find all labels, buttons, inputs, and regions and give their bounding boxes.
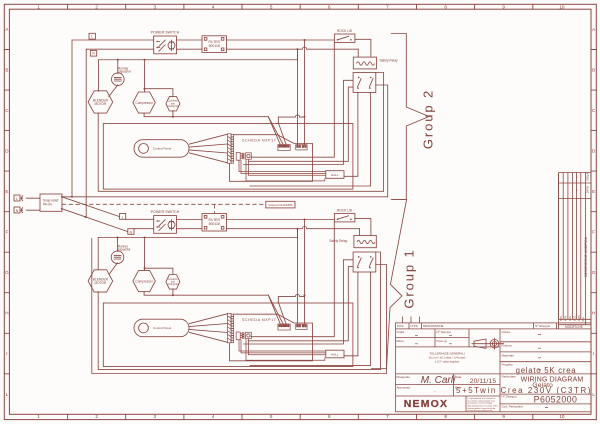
connector CN2 group1 bbox=[278, 324, 290, 330]
svg-text:DATA: DATA bbox=[585, 186, 589, 193]
wire L top rail bbox=[72, 39, 154, 41]
svg-text:POS.: POS. bbox=[560, 315, 563, 321]
svg-text:9: 9 bbox=[502, 4, 505, 9]
frame column ticks top bbox=[68, 4, 533, 9]
svg-text:G: G bbox=[592, 270, 596, 275]
rock lid switch S2 bbox=[334, 34, 355, 43]
svg-text:H: H bbox=[592, 311, 595, 316]
right col row materiale bbox=[500, 361, 591, 363]
svg-text:L: L bbox=[122, 215, 124, 219]
wire filter N to relay coil g1 with hop bbox=[227, 226, 360, 228]
wire CN diagonal 3 g1 bbox=[278, 302, 286, 324]
column line symbol cell bbox=[468, 329, 470, 347]
svg-text:Progetto: Progetto bbox=[502, 363, 514, 367]
wire capacitor drop bbox=[117, 60, 119, 74]
node junction L at x304.5 bbox=[304, 39, 306, 41]
wires board to hall sensor bbox=[239, 159, 326, 181]
wire motor bottom return g1 bbox=[98, 252, 380, 370]
svg-text:± 0.2° valori angolari: ± 0.2° valori angolari bbox=[435, 360, 460, 364]
node capacitor tap bbox=[117, 59, 119, 61]
board edge connector CN1 bbox=[228, 134, 234, 164]
wire power switch to filter L g1 bbox=[177, 219, 203, 221]
filter F1 group1 bbox=[202, 214, 227, 232]
wire motor bottom return bbox=[98, 73, 383, 192]
svg-text:Cod. Particolare: Cod. Particolare bbox=[502, 404, 524, 408]
board NXP17 outline bbox=[230, 135, 313, 182]
svg-text:Nº Disegno: Nº Disegno bbox=[502, 395, 517, 399]
safety relay K1 contacts bbox=[353, 73, 376, 93]
terminal square L bbox=[89, 33, 95, 39]
wire left rail 1 (L) bbox=[71, 40, 73, 197]
svg-text:4: 4 bbox=[212, 4, 215, 9]
svg-text:SCHEDA NXP17: SCHEDA NXP17 bbox=[242, 139, 276, 143]
blender motor group1 bbox=[88, 270, 113, 292]
frame grid letters left bbox=[5, 27, 9, 397]
wire CN diagonal 3 bbox=[278, 123, 286, 145]
svg-text:SIGLA: SIGLA bbox=[585, 173, 589, 181]
wires board to hall group1 bbox=[239, 339, 326, 361]
svg-text:E: E bbox=[592, 189, 595, 194]
svg-text:HALL: HALL bbox=[331, 173, 339, 177]
wire contact pin 2 under board g1 bbox=[250, 272, 371, 365]
right col row finitura bbox=[500, 351, 591, 353]
column line data sub bbox=[453, 374, 455, 396]
wire coil left feed bbox=[357, 49, 359, 57]
svg-text:I: I bbox=[593, 351, 594, 356]
svg-text:MOTOR: MOTOR bbox=[94, 102, 107, 106]
svg-text:B: B bbox=[5, 68, 8, 73]
wire fan bottom drop g1 bbox=[172, 289, 174, 295]
svg-text:±0.1 tol / ±0.1 sbav. / 1/4 (m: ±0.1 tol / ±0.1 sbav. / 1/4 (max) bbox=[429, 356, 466, 360]
power switch S1 group1 bbox=[154, 216, 177, 234]
svg-text:L: L bbox=[6, 392, 9, 397]
right col row progetto bbox=[500, 373, 591, 375]
svg-text:MOTOR: MOTOR bbox=[94, 281, 107, 285]
connector BT1 group1 bbox=[296, 324, 307, 329]
wire rock lid to coil bbox=[355, 39, 371, 57]
filter F1 bbox=[202, 36, 227, 53]
column line nps bbox=[421, 323, 423, 329]
control panel group1 bbox=[134, 319, 189, 337]
row line approvato bottom bbox=[396, 395, 501, 397]
column line n disegno end bbox=[556, 323, 558, 329]
projection method symbol bbox=[472, 338, 505, 350]
node compressor line end bbox=[304, 116, 306, 118]
svg-text:E: E bbox=[5, 189, 8, 194]
svg-text:Nº Disegno: Nº Disegno bbox=[535, 324, 550, 328]
hall sensor group1 bbox=[326, 350, 344, 358]
svg-text:10: 10 bbox=[559, 414, 565, 419]
svg-text:2: 2 bbox=[95, 4, 98, 9]
frame grid letters right bbox=[592, 27, 596, 397]
wire BT feed A g1 bbox=[297, 229, 299, 325]
wire contact pin 1 to hall right bbox=[344, 93, 358, 177]
svg-text:6: 6 bbox=[328, 414, 331, 419]
svg-text:10: 10 bbox=[559, 4, 565, 9]
safety relay contacts group1 bbox=[353, 252, 376, 272]
wire capacitor to motor diagonal bbox=[109, 85, 118, 97]
board edge connector group1 bbox=[228, 313, 234, 343]
svg-text:ROCK LID: ROCK LID bbox=[337, 29, 353, 33]
svg-text:Data: Data bbox=[455, 386, 462, 390]
row line disegnato bottom bbox=[396, 384, 501, 386]
compressor M2 bbox=[133, 92, 155, 113]
svg-text:N.: N. bbox=[576, 176, 578, 179]
frame column ticks bottom bbox=[68, 414, 533, 419]
svg-text:Safety Relay: Safety Relay bbox=[329, 239, 347, 243]
svg-text:Peso gr.: Peso gr. bbox=[437, 339, 448, 343]
hall sensor bbox=[326, 171, 344, 179]
svg-text:M. Carli: M. Carli bbox=[421, 375, 456, 386]
safety relay coil group1 bbox=[354, 235, 376, 247]
wire N top rail bbox=[86, 48, 154, 50]
wire compressor drop g1 bbox=[144, 238, 146, 271]
right col row n disegno bbox=[500, 403, 591, 405]
wire N into power switch bbox=[134, 228, 154, 230]
svg-text:3: 3 bbox=[154, 4, 157, 9]
wire contact pin 1 to hall right g1 bbox=[344, 272, 358, 356]
svg-text:B: B bbox=[592, 68, 595, 73]
svg-text:P6052000: P6052000 bbox=[534, 394, 578, 404]
wire left rail 2 (N) bbox=[85, 49, 87, 217]
svg-text:6: 6 bbox=[328, 4, 331, 9]
svg-text:Control Panel: Control Panel bbox=[153, 147, 172, 151]
svg-text:N.: N. bbox=[576, 189, 578, 192]
wire filter to rock lid L g1 bbox=[227, 219, 335, 221]
svg-text:I: I bbox=[6, 351, 7, 356]
node capacitor tap g1 bbox=[117, 237, 119, 239]
column line descrizione end bbox=[533, 323, 535, 329]
svg-text:DESCRIZIONE MODIFICA: DESCRIZIONE MODIFICA bbox=[584, 236, 588, 276]
svg-text:500118: 500118 bbox=[209, 44, 220, 48]
wire coil left feed g1 bbox=[359, 229, 361, 236]
revision header row line bbox=[396, 328, 592, 330]
svg-text:Safety Relay: Safety Relay bbox=[380, 58, 398, 62]
wire motor loop top rail bbox=[99, 59, 298, 61]
wire filter N to relay coil with hop bbox=[227, 47, 359, 49]
svg-text:3: 3 bbox=[154, 414, 157, 419]
right col row colore bbox=[500, 341, 591, 343]
svg-text:cooling fan: cooling fan bbox=[167, 105, 179, 108]
frame row ticks left bbox=[4, 50, 9, 374]
svg-text:L: L bbox=[16, 197, 18, 201]
row line ritiro bottom bbox=[396, 346, 501, 348]
wire CN diagonal 2 g1 bbox=[268, 295, 283, 324]
frame grid numbers top bbox=[37, 4, 565, 9]
ground chassis dashed line bbox=[62, 204, 266, 213]
copyright small text bbox=[468, 398, 499, 412]
wire filter to rock lid L bbox=[227, 39, 335, 41]
svg-text:Ritiro: Ritiro bbox=[397, 339, 404, 343]
control panel bbox=[134, 140, 189, 158]
svg-text:capacitor: capacitor bbox=[118, 248, 132, 252]
node junction N g1 bbox=[297, 228, 299, 230]
wire contact pin 2 under board bbox=[250, 93, 371, 187]
wire compressor bottom g1 bbox=[144, 292, 304, 303]
column line copyright cell bbox=[465, 396, 467, 412]
node fan bottom junction g1 bbox=[172, 294, 174, 296]
svg-text:Ground CHASSIS: Ground CHASSIS bbox=[268, 203, 292, 207]
wire outer loop return g1 bbox=[92, 239, 387, 374]
svg-text:cooling fan: cooling fan bbox=[167, 283, 179, 286]
wire capacitor to motor diagonal g1 bbox=[109, 263, 118, 275]
frame row ticks right bbox=[591, 50, 596, 374]
node compressor tap bbox=[144, 59, 146, 61]
svg-text:TOLLERANZE GENERALI: TOLLERANZE GENERALI bbox=[429, 352, 465, 356]
wire CN diagonal 1 g1 bbox=[268, 295, 280, 324]
wire power switch to filter L bbox=[177, 39, 203, 41]
svg-text:POWER SWITCH: POWER SWITCH bbox=[151, 30, 180, 34]
title block outline bbox=[396, 323, 592, 412]
safety relay K1 coil bbox=[353, 57, 376, 69]
wire BT feed B bbox=[304, 40, 306, 145]
wire rock lid to coil g1 bbox=[355, 219, 371, 236]
svg-text:Group 1: Group 1 bbox=[402, 248, 417, 308]
runner capacitor group1 bbox=[111, 251, 124, 264]
column line right col bbox=[499, 329, 501, 412]
svg-text:7: 7 bbox=[386, 414, 389, 419]
svg-text:Approvato: Approvato bbox=[397, 386, 411, 390]
svg-text:Compressor: Compressor bbox=[135, 101, 153, 105]
svg-text:Particolare: Particolare bbox=[502, 374, 517, 378]
svg-text:Control Panel: Control Panel bbox=[153, 326, 172, 330]
wire fan branch g1 bbox=[145, 268, 173, 274]
wire motor top drop g1 bbox=[97, 238, 99, 270]
rock lid switch group1 bbox=[334, 213, 355, 222]
relay RL1 group1 bbox=[236, 332, 244, 340]
frame grid numbers bottom bbox=[37, 414, 565, 419]
svg-text:perseguita a norma di legge: perseguita a norma di legge bbox=[468, 402, 494, 405]
wire rock lid tap to board bbox=[251, 43, 334, 158]
enclosure rectangle control panel bbox=[103, 124, 353, 190]
svg-text:DATA: DATA bbox=[578, 315, 581, 321]
wire compressor bottom bbox=[144, 113, 304, 123]
connector CN2 on board bbox=[278, 145, 290, 151]
terminal square L group1 bbox=[120, 214, 126, 220]
svg-text:MODIFICHE: MODIFICHE bbox=[565, 325, 583, 329]
wire outer loop L return bbox=[62, 85, 388, 197]
svg-text:N.PS: N.PS bbox=[564, 315, 567, 321]
row line scala/ritiro bbox=[396, 337, 470, 339]
enclosure rectangle control panel g1 bbox=[103, 303, 353, 367]
svg-text:MOD: MOD bbox=[573, 315, 576, 321]
wire contact stub left 2 g1 bbox=[249, 267, 353, 341]
svg-text:8: 8 bbox=[444, 4, 447, 9]
wire fan branch bbox=[145, 89, 173, 97]
svg-text:Materiale: Materiale bbox=[502, 353, 515, 357]
node compressor line end g1 bbox=[304, 294, 306, 296]
node rail1 to outer loop bbox=[71, 196, 73, 198]
snap relief PA-04 bbox=[40, 194, 62, 211]
wire BT feed A bbox=[297, 49, 299, 145]
svg-text:9: 9 bbox=[502, 414, 505, 419]
wire fan bottom drop bbox=[172, 111, 174, 117]
revision row stubs above block bbox=[403, 317, 420, 323]
row line tolleranze bottom bbox=[396, 373, 501, 375]
svg-text:F: F bbox=[592, 230, 595, 235]
svg-text:8: 8 bbox=[444, 414, 447, 419]
column line pos bbox=[408, 323, 410, 329]
wire contact stub left 1 g1 bbox=[244, 260, 354, 344]
svg-text:2: 2 bbox=[95, 414, 98, 419]
svg-text:DES.: DES. bbox=[569, 315, 572, 321]
group 1 brace bbox=[371, 200, 407, 369]
wire capacitor drop g1 bbox=[117, 238, 119, 252]
wire drop to motor rail g1 bbox=[297, 229, 299, 238]
svg-text:500118: 500118 bbox=[209, 222, 220, 226]
svg-text:gelato 5K crea: gelato 5K crea bbox=[516, 366, 577, 375]
svg-text:DESCRIZIONE: DESCRIZIONE bbox=[423, 324, 444, 328]
wire motor top drop bbox=[98, 60, 100, 92]
terminal square N group1 bbox=[128, 229, 134, 235]
wire contact stub left 1 bbox=[244, 80, 354, 164]
svg-text:F: F bbox=[5, 230, 8, 235]
svg-text:5: 5 bbox=[270, 414, 273, 419]
wire CN diagonal 1 bbox=[268, 117, 280, 145]
terminal plug N bbox=[14, 207, 20, 213]
wire diagonal to L input group1 bbox=[62, 197, 120, 217]
right col row particolare bbox=[500, 393, 591, 395]
flex cable trapezoid group1 bbox=[189, 314, 228, 343]
svg-text:Group 2: Group 2 bbox=[421, 89, 436, 149]
svg-text:4: 4 bbox=[212, 414, 215, 419]
node compressor tap g1 bbox=[144, 237, 146, 239]
svg-text:1: 1 bbox=[37, 414, 40, 419]
svg-text:Scala: Scala bbox=[397, 330, 405, 334]
condenser cooling fan group1 bbox=[166, 275, 180, 290]
svg-text:Compressor: Compressor bbox=[135, 279, 153, 283]
terminal square N bbox=[90, 51, 96, 57]
svg-text:L: L bbox=[91, 35, 93, 39]
svg-text:1: 1 bbox=[37, 4, 40, 9]
terminal plug L bbox=[14, 195, 20, 201]
wire rock lid tap to board g1 bbox=[251, 222, 334, 337]
ground chassis label box bbox=[266, 201, 295, 208]
wire CN diagonal 2 bbox=[268, 117, 283, 145]
wire power switch to filter N g1 bbox=[177, 228, 203, 230]
svg-text:capacitor: capacitor bbox=[118, 70, 132, 74]
relay RL1 on board bbox=[236, 153, 244, 161]
svg-text:SCHEDA NXP17: SCHEDA NXP17 bbox=[242, 318, 276, 322]
svg-text:PA-04: PA-04 bbox=[43, 202, 52, 206]
svg-text:POS.: POS. bbox=[397, 324, 404, 328]
svg-text:POWER SWITCH: POWER SWITCH bbox=[151, 210, 180, 214]
svg-text:7: 7 bbox=[386, 4, 389, 9]
node fan branch bbox=[144, 88, 146, 90]
wire compressor drop bbox=[144, 60, 146, 92]
svg-text:20/11/15: 20/11/15 bbox=[470, 378, 497, 385]
condenser cooling fan M3 bbox=[166, 96, 180, 111]
wire motor loop top rail g1 bbox=[98, 237, 297, 239]
svg-text:prosecuted according to law: prosecuted according to law bbox=[468, 409, 493, 412]
node fan branch g1 bbox=[144, 267, 146, 269]
compressor group1 bbox=[133, 271, 155, 292]
connector BT1 on board bbox=[296, 145, 307, 150]
runner capacitor C1 bbox=[112, 73, 125, 86]
svg-text:L: L bbox=[592, 392, 595, 397]
node junction N at x297.5 bbox=[297, 48, 299, 50]
svg-text:Colore: Colore bbox=[502, 330, 511, 334]
svg-text:Disegnato: Disegnato bbox=[397, 375, 411, 379]
svg-text:HALL: HALL bbox=[331, 353, 339, 357]
svg-text:G: G bbox=[5, 270, 9, 275]
wire contact stub left 2 bbox=[249, 87, 353, 161]
group 2 brace bbox=[391, 34, 429, 200]
blender motor M1 bbox=[88, 91, 113, 113]
node fan bottom junction bbox=[172, 116, 174, 118]
power switch S1 bbox=[154, 36, 177, 54]
board NXP17 outline group1 bbox=[230, 314, 313, 361]
column line scala/stampo bbox=[434, 329, 436, 347]
wire power switch to filter N bbox=[177, 48, 203, 50]
svg-text:ROCK LID: ROCK LID bbox=[337, 208, 353, 212]
svg-text:NEMOX: NEMOX bbox=[404, 398, 449, 410]
revision strip table bbox=[559, 173, 592, 329]
wire BT feed B g1 bbox=[304, 220, 306, 325]
svg-text:5: 5 bbox=[270, 4, 273, 9]
wire diagonal to N input group1 bbox=[62, 209, 128, 232]
wire drop to motor rail bbox=[297, 49, 299, 60]
svg-text:H: H bbox=[5, 311, 8, 316]
node junction L g1 bbox=[304, 219, 306, 221]
cell dash marks bbox=[415, 335, 548, 408]
svg-text:Data: Data bbox=[455, 375, 462, 379]
wire L into power switch bbox=[126, 218, 154, 220]
svg-text:NºPS: NºPS bbox=[411, 324, 418, 328]
svg-text:Nº Stampo: Nº Stampo bbox=[437, 330, 452, 334]
relay RL2 group1 bbox=[246, 332, 252, 338]
node rail2 on diagonal bbox=[85, 216, 87, 218]
flex cable trapezoid bbox=[189, 134, 228, 163]
svg-text:SIG: SIG bbox=[582, 317, 585, 321]
relay RL2 on board bbox=[246, 153, 252, 159]
